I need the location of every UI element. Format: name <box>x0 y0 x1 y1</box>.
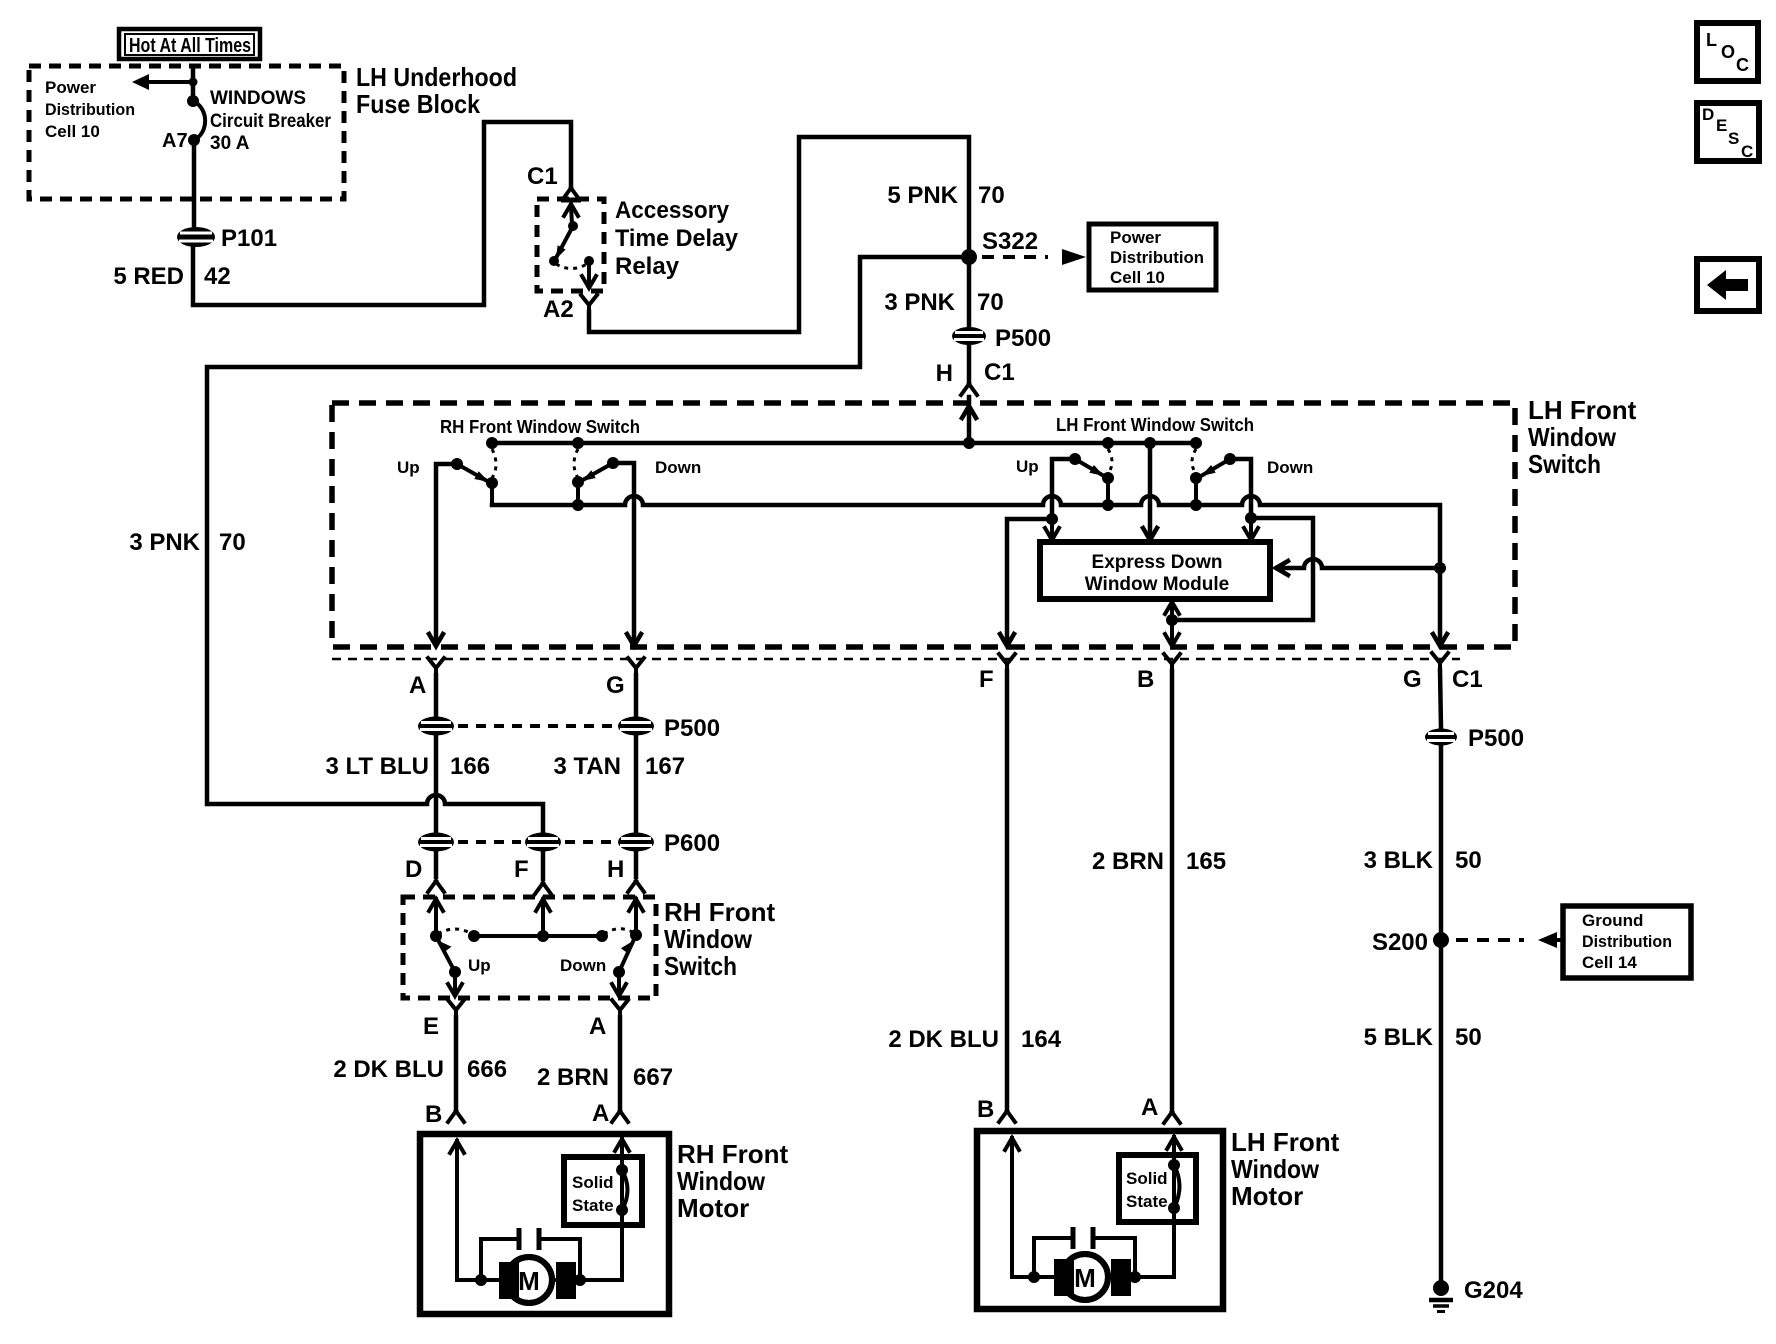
svg-text:30 A: 30 A <box>210 133 250 154</box>
svg-text:Express Down: Express Down <box>1092 552 1223 573</box>
svg-text:E: E <box>423 1013 439 1040</box>
svg-text:S: S <box>1728 129 1739 148</box>
wire 2 DK BLU 164 (pin F to LH motor) <box>1005 671 1010 1108</box>
connector P600 (D wire) <box>418 833 454 852</box>
svg-text:LH Front: LH Front <box>1231 1127 1340 1157</box>
relay C1 pin arrow <box>564 204 578 225</box>
label RH Front Window Motor <box>677 1139 789 1223</box>
label 3 LT BLU 166 <box>325 753 490 780</box>
LH Front Window Motor box <box>977 1131 1223 1309</box>
wire RH motor B lead (entry arrow) <box>450 1141 464 1280</box>
label RH Front Window Switch (door) <box>664 897 776 981</box>
svg-text:LH Front Window Switch: LH Front Window Switch <box>1056 415 1254 435</box>
wire LH down output to junction <box>1230 459 1251 518</box>
wire pin G to window switch H <box>634 675 639 877</box>
svg-text:D: D <box>1702 105 1714 124</box>
svg-text:666: 666 <box>467 1056 507 1083</box>
ground bus wire with hops <box>492 496 1447 646</box>
svg-text:Up: Up <box>1016 457 1039 476</box>
solid state contact dots (LH) <box>1168 1159 1180 1214</box>
svg-text:A: A <box>589 1013 606 1040</box>
svg-text:70: 70 <box>219 529 246 556</box>
wire up lever to pin E (exit arrow) <box>448 972 462 996</box>
connector P500 (A wire) <box>418 717 454 736</box>
wire LH motor bottom <box>1012 1275 1174 1279</box>
svg-text:A7: A7 <box>162 130 188 152</box>
connector Y pin E (door) <box>448 1000 464 1018</box>
dashed connector line P500 <box>458 724 614 728</box>
connector Y at relay A2 <box>581 295 597 313</box>
wire ground run G C1 to G204 <box>1440 670 1441 1283</box>
dashed reference arrow to Power Distribution <box>982 249 1086 265</box>
motor M2 (LH) <box>1054 1254 1131 1300</box>
svg-text:Ground: Ground <box>1582 911 1643 930</box>
svg-text:42: 42 <box>204 263 231 290</box>
svg-text:Window Module: Window Module <box>1085 574 1229 595</box>
door down mechanical link dashed <box>604 929 634 934</box>
label 2 BRN 667 <box>537 1064 673 1091</box>
svg-text:P600: P600 <box>664 830 720 857</box>
label 3 PNK 70 <box>884 289 1003 316</box>
svg-text:C: C <box>1736 55 1749 75</box>
svg-text:C1: C1 <box>1452 666 1483 693</box>
LH up contact dot <box>1069 453 1081 465</box>
svg-text:164: 164 <box>1021 1026 1062 1053</box>
wire down lever to pin A (exit arrow) <box>612 972 626 996</box>
svg-text:RH Front Window Switch: RH Front Window Switch <box>440 417 640 437</box>
svg-text:Distribution: Distribution <box>1582 932 1672 951</box>
relay lever end dot <box>549 256 559 266</box>
svg-text:Window: Window <box>664 924 753 954</box>
door bus junction dot (F) <box>537 930 549 942</box>
wire 2 BRN 165 (pin B to LH motor) <box>1170 671 1175 1110</box>
label Accessory Time Delay Relay <box>615 197 739 280</box>
svg-text:Switch: Switch <box>1528 449 1601 479</box>
connector P500 (pink feed) <box>952 327 986 345</box>
connector face dashed line <box>332 658 1460 661</box>
capacitor tap dot right (LH) <box>1129 1271 1141 1283</box>
svg-text:2 BRN: 2 BRN <box>1092 848 1164 875</box>
svg-text:L: L <box>1706 30 1717 50</box>
relay C1 pin tab <box>561 198 581 203</box>
capacitor C (RH motor) <box>481 1228 580 1280</box>
svg-text:Relay: Relay <box>615 253 680 280</box>
svg-text:Motor: Motor <box>677 1193 749 1223</box>
wire RH motor bottom <box>457 1278 622 1282</box>
ground G204 <box>1429 1280 1453 1312</box>
svg-text:M: M <box>518 1266 540 1296</box>
connector fork at relay C1 <box>563 188 579 199</box>
Power Distribution Cell 10 reference box <box>1089 224 1216 290</box>
svg-text:D: D <box>405 856 422 883</box>
svg-text:A: A <box>592 1100 609 1127</box>
door bus end dot right <box>596 930 608 942</box>
label LH Underhood Fuse Block <box>356 62 517 119</box>
label Power Distribution Cell 10 (fuse block) <box>45 78 135 141</box>
LH Front Window Switch dashed box <box>332 403 1515 647</box>
door up mechanical link dashed <box>438 929 472 934</box>
capacitor tap dot left (LH) <box>1028 1271 1040 1283</box>
svg-text:A: A <box>409 672 426 699</box>
wire into LH front window switch with entry arrow <box>962 397 976 443</box>
connector Y pin F <box>999 654 1015 672</box>
wire S322 branch to RH window switch (3 PNK 70) <box>207 257 962 832</box>
svg-text:P101: P101 <box>221 225 277 252</box>
wire junction to pin B (arrow down) <box>1165 620 1179 646</box>
svg-text:Hot At All Times: Hot At All Times <box>129 35 251 57</box>
wire breaker to P101 <box>192 140 197 228</box>
svg-text:70: 70 <box>977 289 1004 316</box>
capacitor tap dot right <box>574 1274 586 1286</box>
connector fork at D <box>428 881 444 892</box>
svg-text:3 BLK: 3 BLK <box>1364 847 1434 874</box>
LOC legend box <box>1697 23 1758 81</box>
svg-text:E: E <box>1716 116 1727 135</box>
label 2 DK BLU 666 <box>333 1056 507 1083</box>
svg-text:Accessory: Accessory <box>615 197 730 224</box>
LH up switch lever <box>1075 459 1104 476</box>
door up lever <box>436 936 455 972</box>
connector fork at F <box>535 883 551 894</box>
door switch D contact dot <box>430 930 442 942</box>
svg-text:P500: P500 <box>995 325 1051 352</box>
svg-text:RH Front: RH Front <box>664 897 776 927</box>
svg-text:Window: Window <box>677 1166 766 1196</box>
door down lever pivot dot <box>613 966 625 978</box>
relay mechanical link dashed <box>556 264 587 269</box>
svg-text:State: State <box>1126 1192 1168 1211</box>
wire 2 BRN 667 <box>618 1017 623 1108</box>
svg-text:Distribution: Distribution <box>45 100 135 119</box>
junction dots on ground bus <box>572 499 1202 511</box>
svg-text:3 TAN: 3 TAN <box>553 753 621 780</box>
svg-text:Power: Power <box>1110 228 1161 247</box>
svg-text:Solid: Solid <box>572 1173 614 1192</box>
dashed connector line P600 <box>458 840 614 844</box>
RH up contact dot <box>451 458 463 470</box>
Solid State module box (LH) <box>1119 1155 1196 1222</box>
svg-text:5 PNK: 5 PNK <box>887 182 958 209</box>
svg-text:Solid: Solid <box>1126 1169 1168 1188</box>
wire junction to pin F <box>1000 519 1052 646</box>
arrow to power distribution feed <box>132 74 198 90</box>
wire 2 DK BLU 666 <box>454 1017 459 1108</box>
connector Y pin B <box>1164 654 1180 672</box>
svg-text:Window: Window <box>1528 422 1617 452</box>
wire junction to module top (arrow) <box>1045 519 1059 540</box>
label 2 BRN 165 <box>1092 848 1226 875</box>
svg-text:M: M <box>1074 1263 1096 1293</box>
svg-text:B: B <box>1137 666 1154 693</box>
LH up junction dot <box>1046 513 1058 525</box>
RH down lever end dot <box>572 476 584 488</box>
svg-text:Down: Down <box>655 458 701 477</box>
svg-text:F: F <box>979 666 994 693</box>
connector P500 (ground wire) <box>1425 729 1457 746</box>
svg-text:Down: Down <box>1267 458 1313 477</box>
svg-text:B: B <box>425 1101 442 1128</box>
connector Y pin A <box>428 658 444 677</box>
relay A2 pin arrow <box>582 261 596 288</box>
label 3 PNK 70 (left run) <box>129 529 245 556</box>
DESC legend box <box>1697 103 1759 161</box>
connector Y pin A (door) <box>612 1000 628 1018</box>
RH Front Window Switch dashed box (door) <box>403 897 656 998</box>
svg-text:50: 50 <box>1455 847 1482 874</box>
label 2 DK BLU 164 <box>888 1026 1061 1053</box>
svg-text:Circuit Breaker: Circuit Breaker <box>210 111 332 132</box>
connector fork at H <box>628 881 644 892</box>
wire junction loop to module bottom <box>1172 518 1313 620</box>
wire LH down lever to ground bus <box>1194 478 1198 505</box>
LH up lever end dot <box>1102 472 1114 484</box>
junction dots on feed bus <box>486 437 1202 449</box>
label 5 BLK 50 <box>1364 1024 1482 1051</box>
label 5 PNK 70 <box>887 182 1004 209</box>
wire junction to module top (arrow) <box>1244 518 1258 540</box>
svg-text:State: State <box>572 1196 614 1215</box>
svg-text:Cell 10: Cell 10 <box>1110 268 1165 287</box>
label 3 BLK 50 <box>1364 847 1482 874</box>
svg-text:LH Underhood: LH Underhood <box>356 62 517 92</box>
svg-text:3 LT BLU: 3 LT BLU <box>325 753 429 780</box>
svg-text:165: 165 <box>1186 848 1226 875</box>
wire feed bus (top) <box>492 441 1196 446</box>
svg-text:Motor: Motor <box>1231 1181 1303 1211</box>
connector fork at RH motor B <box>448 1111 464 1122</box>
wire 5 RED 42 from P101 to relay C1 <box>193 122 571 305</box>
svg-text:166: 166 <box>450 753 490 780</box>
svg-text:P500: P500 <box>1468 725 1524 752</box>
solid state thermal arc (LH) <box>1174 1165 1180 1208</box>
svg-text:Switch: Switch <box>664 951 737 981</box>
svg-text:H: H <box>936 360 953 387</box>
connector Y pin G C1 <box>1432 653 1448 671</box>
svg-text:167: 167 <box>645 753 685 780</box>
LH Underhood Fuse Block dashed box <box>29 66 344 199</box>
wire from fuse box top to breaker <box>191 66 196 101</box>
svg-text:Up: Up <box>397 458 420 477</box>
wire RH up lever to ground bus <box>490 483 494 505</box>
RH Front Window Motor box <box>420 1134 669 1314</box>
wire F to door switch <box>541 851 546 879</box>
svg-text:3 PNK: 3 PNK <box>129 529 200 556</box>
svg-text:Power: Power <box>45 78 96 97</box>
RH down switch lever <box>581 463 613 481</box>
LH down switch lever <box>1201 459 1230 476</box>
svg-text:LH Front: LH Front <box>1528 395 1637 425</box>
svg-text:Up: Up <box>468 956 491 975</box>
svg-text:Window: Window <box>1231 1154 1320 1184</box>
wire RH motor A lead (entry arrow) <box>615 1139 629 1280</box>
LH up mechanical link dashed <box>1108 449 1112 474</box>
svg-text:50: 50 <box>1455 1024 1482 1051</box>
wire S322 down (3 PNK 70) <box>967 264 972 328</box>
wire D into switch (entry arrow) <box>429 899 443 936</box>
wire pin A to window switch D <box>434 675 439 877</box>
RH up switch lever <box>457 464 489 482</box>
module bottom junction dot <box>1166 614 1178 626</box>
svg-text:5 RED: 5 RED <box>113 263 184 290</box>
relay switch contact dot <box>568 221 578 231</box>
svg-text:2 DK BLU: 2 DK BLU <box>888 1026 999 1053</box>
svg-text:S322: S322 <box>982 228 1038 255</box>
svg-text:Distribution: Distribution <box>1110 248 1204 267</box>
svg-text:3 PNK: 3 PNK <box>884 289 955 316</box>
connector P101 <box>177 227 215 247</box>
RH up mechanical link dashed <box>492 449 496 478</box>
connector P500 (G wire) <box>618 717 654 736</box>
svg-text:A2: A2 <box>543 296 574 323</box>
label LH Front Window Motor <box>1231 1127 1340 1211</box>
wire LH up lever to ground bus <box>1106 478 1110 505</box>
relay A2 contact dot <box>584 256 594 266</box>
label LH Front Window Switch (box) <box>1528 395 1637 479</box>
RH down contact dot <box>607 457 619 469</box>
svg-text:P500: P500 <box>664 715 720 742</box>
connector fork at H C1 <box>961 384 977 395</box>
relay Accessory Time Delay dashed box <box>537 199 604 291</box>
feed junction dot for module right input <box>1434 562 1446 574</box>
svg-text:G204: G204 <box>1464 1277 1523 1304</box>
svg-text:F: F <box>514 856 529 883</box>
connector P600 (H wire) <box>618 833 654 852</box>
label 3 TAN 167 <box>553 753 685 780</box>
connector fork at RH motor A <box>612 1111 628 1122</box>
RH down mechanical link dashed <box>574 449 578 478</box>
wire to module right input with hop <box>1276 559 1440 575</box>
wire junction into module bottom (arrow up) <box>1165 602 1179 620</box>
label 5 RED 42 <box>113 263 230 290</box>
door up lever pivot dot <box>449 966 461 978</box>
LH down contact dot <box>1224 453 1236 465</box>
connector fork at LH motor B <box>999 1111 1015 1122</box>
wire RH up output to pin A <box>429 464 457 646</box>
svg-text:Down: Down <box>560 956 606 975</box>
LH down lever end dot <box>1190 472 1202 484</box>
svg-text:Time Delay: Time Delay <box>615 225 739 252</box>
door switch bus wire <box>474 934 602 938</box>
label WINDOWS Circuit Breaker 30 A <box>210 88 332 154</box>
back-arrow legend box <box>1697 259 1759 311</box>
Ground Distribution Cell 14 reference box <box>1563 906 1691 978</box>
svg-text:H: H <box>607 856 624 883</box>
wire LH motor B lead (entry arrow) <box>1005 1138 1019 1277</box>
capacitor C (LH motor) <box>1034 1227 1135 1277</box>
RH up lever end dot <box>486 477 498 489</box>
svg-text:S200: S200 <box>1372 929 1428 956</box>
LH down mechanical link dashed <box>1192 449 1196 474</box>
door bus end dot left <box>468 930 480 942</box>
relay switch lever <box>556 226 573 259</box>
door switch H contact dot <box>630 929 642 941</box>
svg-text:2 DK BLU: 2 DK BLU <box>333 1056 444 1083</box>
solid state contact dots <box>616 1164 628 1216</box>
connector P600 (F wire) <box>525 833 561 852</box>
svg-text:Cell 10: Cell 10 <box>45 122 100 141</box>
svg-text:Fuse Block: Fuse Block <box>356 89 480 119</box>
wire RH down output to pin G <box>613 463 641 646</box>
circuit breaker WINDOWS 30A <box>187 95 205 146</box>
solid state thermal arc <box>622 1170 628 1210</box>
connector fork at LH motor A <box>1164 1112 1180 1123</box>
splice S200 <box>1433 932 1449 948</box>
svg-text:RH Front: RH Front <box>677 1139 789 1169</box>
motor M1 (RH) <box>499 1257 576 1303</box>
svg-text:O: O <box>1721 42 1735 62</box>
svg-text:C1: C1 <box>527 163 558 190</box>
connector Y pin G <box>628 658 644 677</box>
door down lever <box>619 935 636 972</box>
wire LH motor A lead (entry arrow) <box>1167 1137 1181 1277</box>
wire relay A2 to S322 (5 PNK 70) <box>589 137 969 332</box>
LH down junction dot <box>1245 512 1257 524</box>
wire LH up output to junction <box>1052 459 1075 519</box>
svg-text:G: G <box>1403 666 1422 693</box>
wire P500 to switch pin H C1 <box>967 345 972 381</box>
svg-text:B: B <box>977 1096 994 1123</box>
svg-text:667: 667 <box>633 1064 673 1091</box>
dashed reference arrow to Ground Distribution <box>1456 932 1563 948</box>
svg-text:70: 70 <box>978 182 1005 209</box>
svg-text:5 BLK: 5 BLK <box>1364 1024 1434 1051</box>
Hot At All Times flag <box>119 29 260 59</box>
Solid State module box (RH) <box>564 1157 642 1225</box>
svg-text:G: G <box>606 672 625 699</box>
svg-text:2 BRN: 2 BRN <box>537 1064 609 1091</box>
svg-text:Cell 14: Cell 14 <box>1582 953 1637 972</box>
wire RH down lever to ground bus <box>576 482 580 505</box>
capacitor tap dot left <box>475 1274 487 1286</box>
svg-text:WINDOWS: WINDOWS <box>210 88 306 109</box>
wire H into switch (entry arrow) <box>629 899 643 935</box>
wire feed bus to module (arrow) <box>1143 443 1157 540</box>
svg-text:C: C <box>1741 142 1753 161</box>
Express Down Window Module U1 <box>1040 542 1270 599</box>
wire F into switch (entry arrow) <box>536 899 550 936</box>
svg-text:A: A <box>1141 1094 1158 1121</box>
svg-text:C1: C1 <box>984 359 1015 386</box>
splice S322 <box>961 249 977 265</box>
